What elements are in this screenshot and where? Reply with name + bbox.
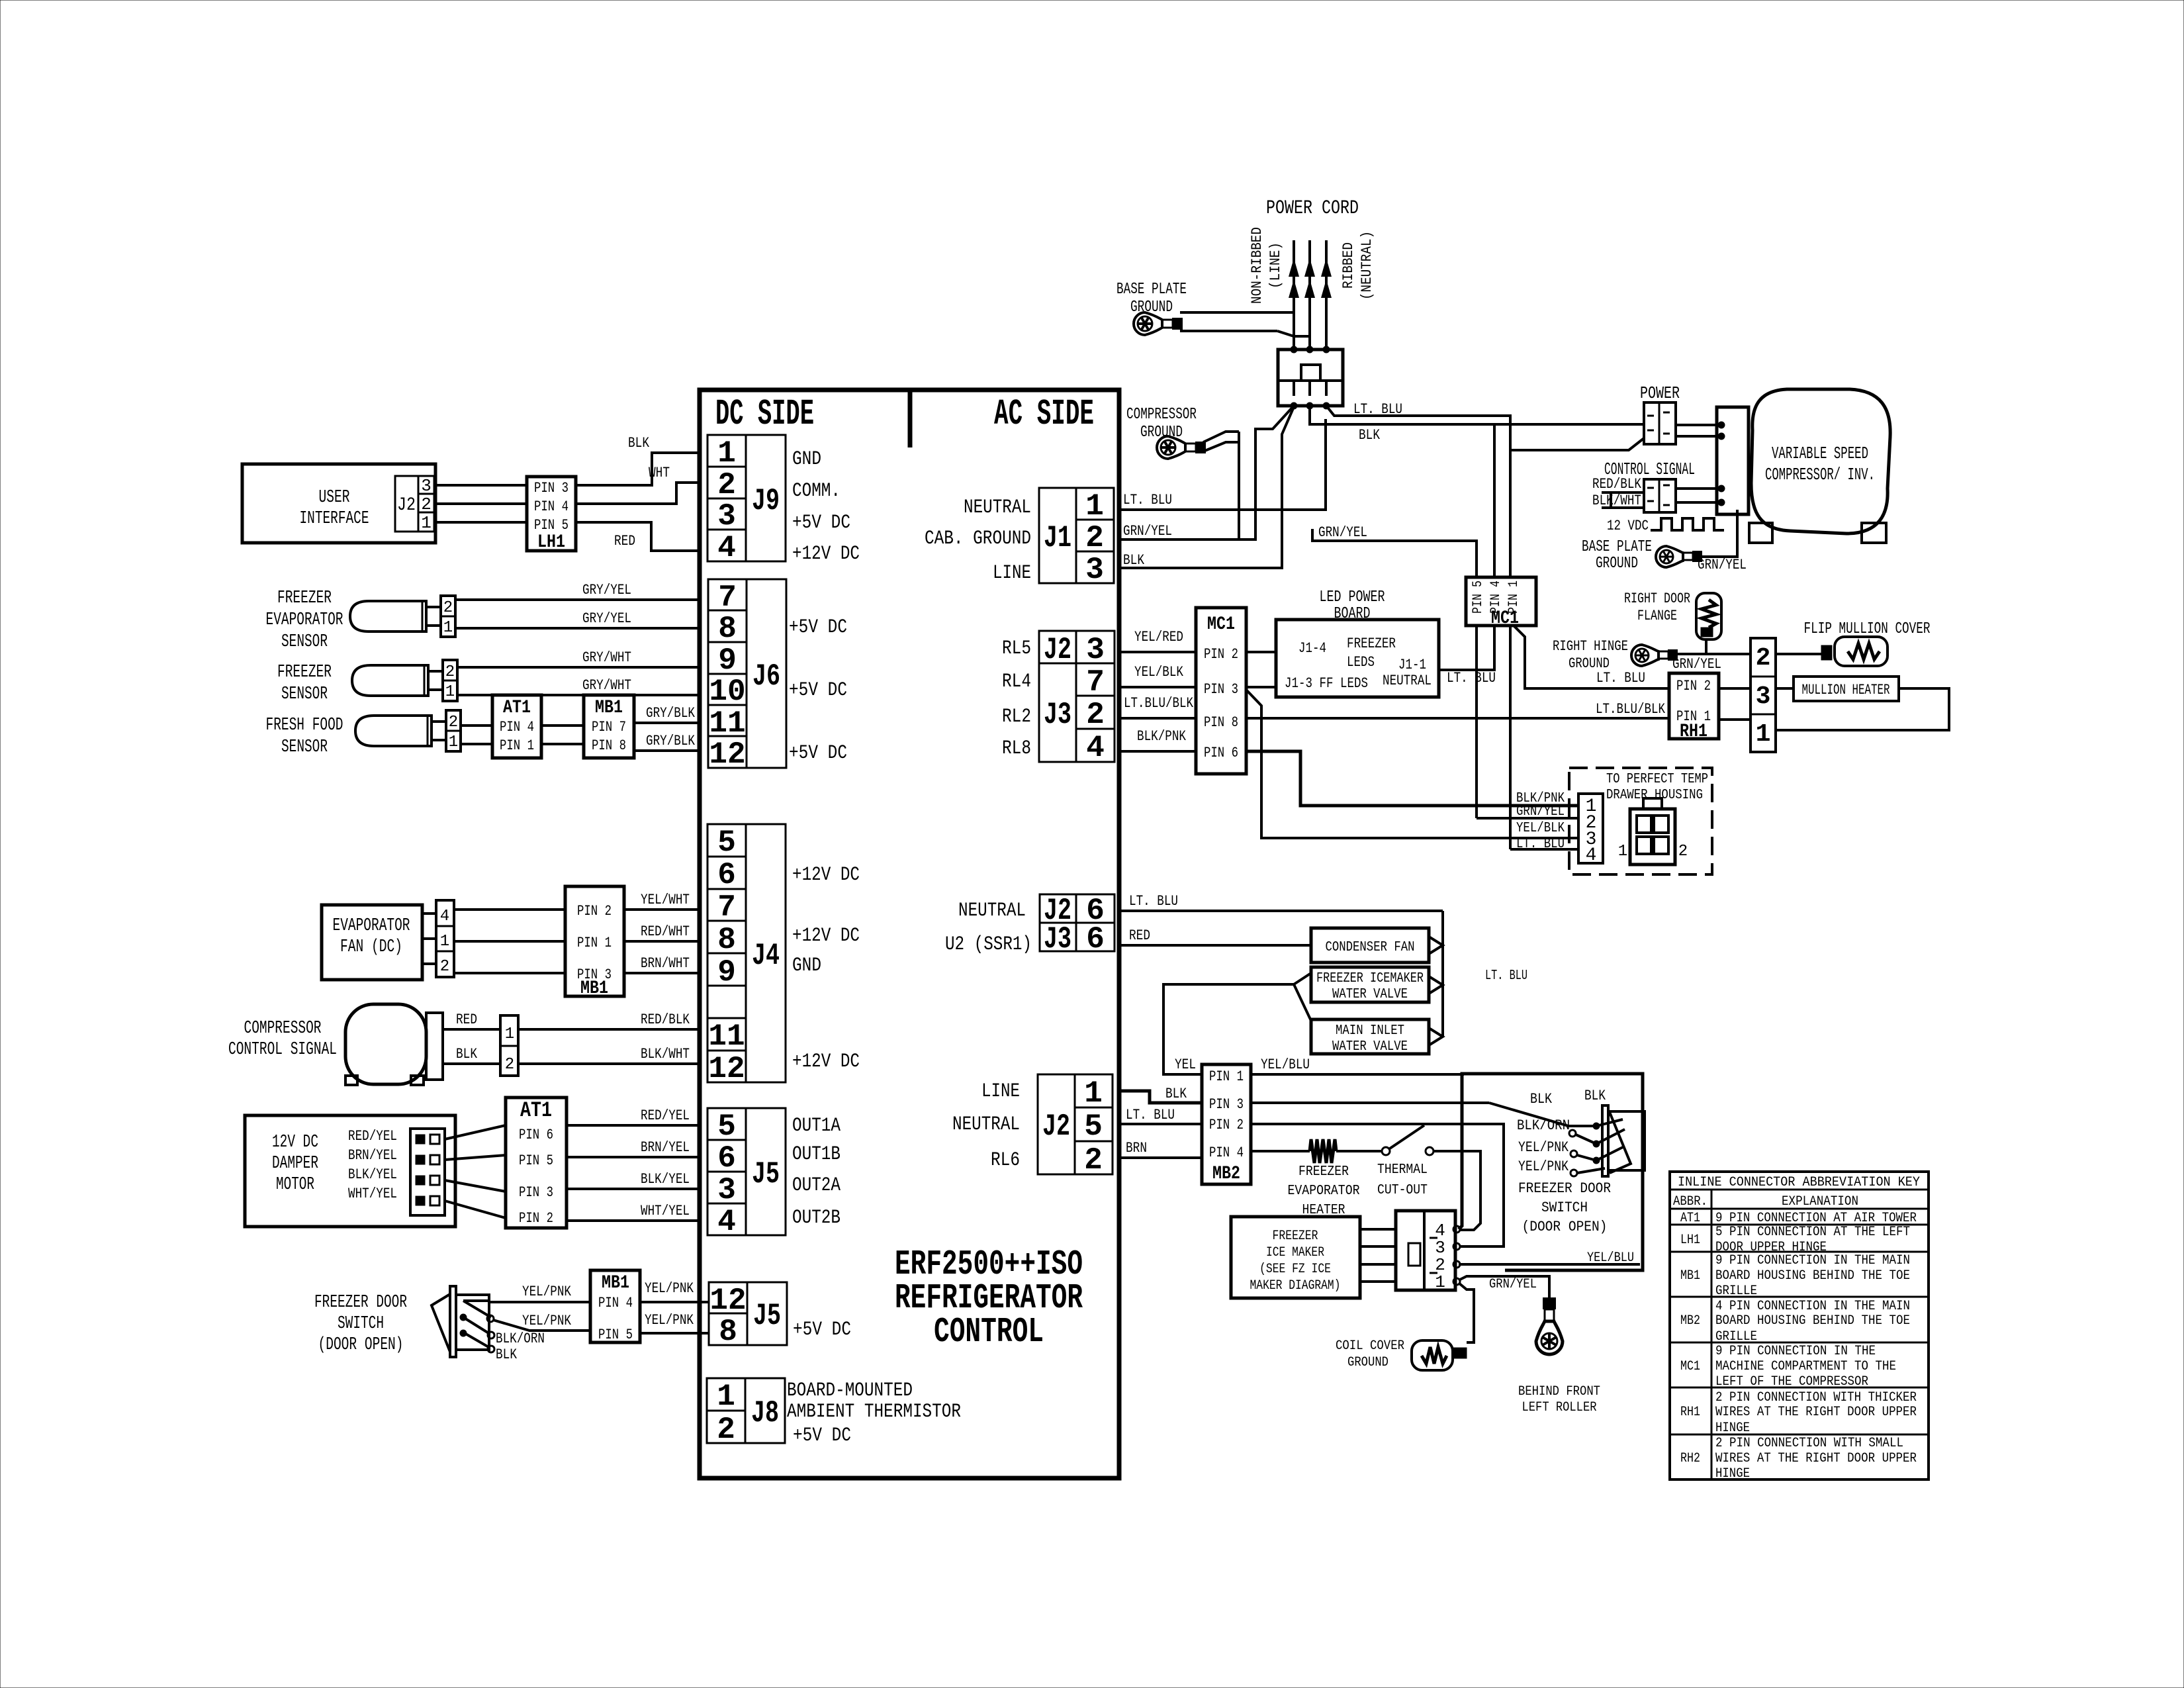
- svg-text:FREEZER ICEMAKER: FREEZER ICEMAKER: [1316, 971, 1424, 986]
- svg-text:MAIN INLET: MAIN INLET: [1336, 1023, 1404, 1039]
- svg-text:MACHINE COMPARTMENT TO THE: MACHINE COMPARTMENT TO THE: [1715, 1359, 1896, 1374]
- svg-text:FLIP MULLION COVER: FLIP MULLION COVER: [1804, 620, 1931, 638]
- svg-text:BOARD-MOUNTED: BOARD-MOUNTED: [787, 1380, 913, 1402]
- svg-text:NEUTRAL: NEUTRAL: [958, 900, 1026, 922]
- svg-text:1: 1: [505, 1025, 514, 1043]
- svg-text:OUT2B: OUT2B: [792, 1207, 841, 1229]
- svg-text:WHT/YEL: WHT/YEL: [348, 1186, 397, 1202]
- svg-text:GRY/WHT: GRY/WHT: [582, 649, 631, 666]
- svg-text:5 PIN CONNECTION AT THE LEFT: 5 PIN CONNECTION AT THE LEFT: [1715, 1225, 1910, 1240]
- svg-text:J1: J1: [1044, 521, 1071, 555]
- svg-text:9: 9: [718, 643, 737, 678]
- svg-text:FREEZER: FREEZER: [1273, 1229, 1318, 1244]
- svg-text:LINE: LINE: [981, 1080, 1020, 1103]
- svg-text:BLK: BLK: [1530, 1091, 1553, 1107]
- svg-text:+5V DC: +5V DC: [792, 512, 850, 534]
- svg-text:LT. BLU: LT. BLU: [1596, 670, 1645, 686]
- svg-text:PIN 4: PIN 4: [598, 1295, 633, 1311]
- svg-text:GRY/BLK: GRY/BLK: [646, 733, 696, 749]
- svg-text:7: 7: [1086, 665, 1105, 700]
- svg-text:J4: J4: [752, 939, 780, 973]
- svg-text:RIBBED: RIBBED: [1340, 242, 1357, 289]
- svg-text:+12V DC: +12V DC: [792, 925, 860, 947]
- svg-text:U2 (SSR1): U2 (SSR1): [945, 933, 1032, 956]
- svg-text:BLK: BLK: [1123, 552, 1145, 569]
- svg-text:NEUTRAL: NEUTRAL: [964, 496, 1031, 519]
- svg-text:1: 1: [1618, 843, 1627, 861]
- svg-text:BRN/WHT: BRN/WHT: [641, 955, 690, 972]
- svg-text:LED POWER: LED POWER: [1320, 588, 1385, 606]
- svg-text:MC1: MC1: [1207, 614, 1235, 635]
- svg-text:PIN 3: PIN 3: [519, 1184, 553, 1201]
- svg-text:MB1: MB1: [602, 1273, 629, 1293]
- svg-text:YEL/PNK: YEL/PNK: [522, 1313, 572, 1329]
- svg-text:BRN: BRN: [1126, 1140, 1147, 1156]
- svg-text:8: 8: [717, 923, 736, 957]
- svg-text:ICE MAKER: ICE MAKER: [1266, 1245, 1324, 1260]
- svg-text:PIN 2: PIN 2: [1204, 646, 1238, 663]
- svg-text:2: 2: [445, 663, 455, 681]
- svg-text:YEL/PNK: YEL/PNK: [645, 1280, 694, 1297]
- svg-text:RED/BLK: RED/BLK: [641, 1011, 690, 1028]
- svg-text:FREEZER DOOR: FREEZER DOOR: [314, 1293, 407, 1313]
- svg-text:5: 5: [1084, 1109, 1103, 1144]
- svg-text:LEFT ROLLER: LEFT ROLLER: [1522, 1400, 1597, 1415]
- svg-text:PIN 8: PIN 8: [592, 737, 626, 754]
- svg-text:PIN 1: PIN 1: [1209, 1068, 1244, 1085]
- svg-text:RED/YEL: RED/YEL: [348, 1128, 397, 1145]
- svg-text:1: 1: [440, 933, 449, 951]
- svg-text:PIN 2: PIN 2: [519, 1210, 553, 1227]
- svg-text:WHT/YEL: WHT/YEL: [641, 1203, 690, 1219]
- svg-text:J3: J3: [1044, 922, 1071, 957]
- svg-text:RED/YEL: RED/YEL: [641, 1107, 690, 1124]
- svg-text:YEL/WHT: YEL/WHT: [641, 892, 690, 908]
- svg-text:RH2: RH2: [1680, 1451, 1700, 1466]
- svg-text:11: 11: [708, 1019, 745, 1054]
- svg-text:BLK/YEL: BLK/YEL: [641, 1171, 690, 1188]
- svg-text:3: 3: [1086, 633, 1105, 667]
- svg-text:BASE PLATE: BASE PLATE: [1116, 281, 1187, 299]
- svg-text:PIN 1: PIN 1: [500, 737, 534, 754]
- svg-text:PIN 6: PIN 6: [519, 1127, 553, 1143]
- svg-text:4: 4: [717, 531, 736, 565]
- svg-text:FREEZER: FREEZER: [277, 588, 332, 608]
- svg-text:J1-4: J1-4: [1298, 640, 1326, 657]
- svg-text:RL8: RL8: [1002, 737, 1031, 760]
- svg-text:GRN/YEL: GRN/YEL: [1489, 1277, 1537, 1292]
- svg-text:2: 2: [1084, 1143, 1103, 1178]
- svg-text:1: 1: [1756, 720, 1771, 749]
- svg-text:YEL/BLK: YEL/BLK: [1134, 664, 1184, 680]
- svg-text:PIN 3: PIN 3: [1209, 1096, 1244, 1113]
- svg-text:3: 3: [717, 499, 736, 534]
- svg-text:PIN 8: PIN 8: [1204, 714, 1238, 731]
- svg-text:BLK: BLK: [456, 1046, 478, 1062]
- svg-text:12 VDC: 12 VDC: [1607, 518, 1649, 534]
- svg-text:2: 2: [505, 1056, 514, 1074]
- svg-text:2: 2: [449, 714, 458, 731]
- svg-text:3: 3: [1756, 682, 1771, 711]
- svg-text:BLK: BLK: [496, 1346, 518, 1363]
- svg-text:GRY/BLK: GRY/BLK: [646, 705, 696, 722]
- svg-text:SWITCH: SWITCH: [1541, 1199, 1588, 1216]
- svg-text:4: 4: [440, 908, 449, 925]
- svg-text:BLK: BLK: [1165, 1086, 1187, 1102]
- svg-text:+5V DC: +5V DC: [789, 679, 847, 702]
- svg-text:J5: J5: [753, 1299, 781, 1333]
- svg-text:PIN 5: PIN 5: [519, 1152, 553, 1169]
- svg-text:FRESH FOOD: FRESH FOOD: [266, 716, 343, 735]
- svg-text:YEL/PNK: YEL/PNK: [645, 1312, 694, 1329]
- svg-text:BRN/YEL: BRN/YEL: [348, 1147, 397, 1164]
- svg-text:J2: J2: [1044, 633, 1071, 667]
- svg-text:PIN 6: PIN 6: [1204, 745, 1238, 761]
- svg-text:NEUTRAL: NEUTRAL: [1383, 673, 1432, 689]
- svg-text:2: 2: [1086, 698, 1105, 732]
- svg-text:(NEUTRAL): (NEUTRAL): [1359, 231, 1375, 300]
- svg-text:LH1: LH1: [1680, 1233, 1700, 1248]
- svg-text:POWER CORD: POWER CORD: [1266, 197, 1359, 220]
- svg-text:SENSOR: SENSOR: [281, 632, 328, 652]
- svg-text:12V DC: 12V DC: [272, 1133, 318, 1152]
- svg-text:LT. BLU: LT. BLU: [1123, 492, 1172, 508]
- svg-text:VARIABLE SPEED: VARIABLE SPEED: [1772, 444, 1868, 463]
- svg-text:2 PIN CONNECTION WITH THICKER: 2 PIN CONNECTION WITH THICKER: [1715, 1390, 1917, 1405]
- svg-text:COMPRESSOR/ INV.: COMPRESSOR/ INV.: [1765, 465, 1875, 485]
- svg-text:9 PIN CONNECTION IN THE MAIN: 9 PIN CONNECTION IN THE MAIN: [1715, 1253, 1910, 1268]
- svg-text:3: 3: [1085, 553, 1104, 587]
- svg-text:12: 12: [709, 737, 745, 772]
- svg-text:3: 3: [717, 1173, 736, 1207]
- svg-text:CONTROL SIGNAL: CONTROL SIGNAL: [228, 1040, 337, 1060]
- svg-text:AMBIENT THERMISTOR: AMBIENT THERMISTOR: [787, 1401, 961, 1423]
- svg-text:CAB. GROUND: CAB. GROUND: [925, 528, 1031, 550]
- svg-text:1: 1: [443, 619, 453, 637]
- svg-text:POWER: POWER: [1640, 383, 1680, 403]
- svg-text:RIGHT DOOR: RIGHT DOOR: [1624, 590, 1690, 607]
- svg-text:BOARD HOUSING BEHIND THE TOE: BOARD HOUSING BEHIND THE TOE: [1715, 1268, 1910, 1284]
- svg-text:BLK/PNK: BLK/PNK: [1137, 728, 1187, 745]
- svg-text:BLK/ORN: BLK/ORN: [496, 1331, 545, 1347]
- svg-text:LT. BLU: LT. BLU: [1485, 968, 1527, 984]
- svg-text:FREEZER: FREEZER: [277, 663, 332, 682]
- svg-text:COMM.: COMM.: [792, 480, 841, 502]
- svg-text:YEL/PNK: YEL/PNK: [1518, 1158, 1569, 1175]
- svg-text:(SEE FZ ICE: (SEE FZ ICE: [1259, 1262, 1331, 1277]
- svg-text:RH1: RH1: [1680, 1405, 1700, 1420]
- svg-text:2: 2: [717, 1413, 735, 1447]
- svg-text:ABBR.: ABBR.: [1673, 1194, 1707, 1209]
- svg-text:J3: J3: [1044, 698, 1071, 732]
- svg-text:+5V DC: +5V DC: [789, 742, 847, 765]
- svg-text:MB2: MB2: [1212, 1164, 1240, 1184]
- svg-text:RL4: RL4: [1002, 671, 1031, 693]
- svg-text:FLANGE: FLANGE: [1637, 608, 1677, 624]
- svg-text:AT1: AT1: [520, 1098, 552, 1123]
- svg-text:SWITCH: SWITCH: [338, 1314, 384, 1334]
- svg-text:12: 12: [708, 1052, 745, 1086]
- svg-text:J9: J9: [752, 484, 780, 518]
- svg-text:GRY/YEL: GRY/YEL: [582, 582, 631, 598]
- svg-text:LT.BLU/BLK: LT.BLU/BLK: [1596, 701, 1666, 718]
- svg-text:RIGHT HINGE: RIGHT HINGE: [1553, 638, 1628, 655]
- svg-text:2: 2: [717, 468, 736, 502]
- svg-text:COMPRESSOR: COMPRESSOR: [244, 1019, 322, 1039]
- svg-text:WATER VALVE: WATER VALVE: [1332, 987, 1408, 1002]
- svg-text:+5V DC: +5V DC: [793, 1319, 851, 1341]
- svg-text:+12V DC: +12V DC: [792, 864, 860, 886]
- svg-text:PIN 3: PIN 3: [1204, 681, 1238, 698]
- svg-text:(DOOR OPEN): (DOOR OPEN): [1522, 1219, 1608, 1235]
- svg-text:WHT: WHT: [649, 465, 670, 481]
- svg-text:PIN 2: PIN 2: [1209, 1117, 1244, 1133]
- svg-text:FREEZER DOOR: FREEZER DOOR: [1518, 1180, 1611, 1197]
- svg-text:PIN 4: PIN 4: [500, 719, 534, 735]
- svg-text:2: 2: [1085, 521, 1104, 555]
- svg-text:(LINE): (LINE): [1267, 242, 1284, 289]
- svg-text:1: 1: [449, 733, 458, 751]
- svg-text:J8: J8: [751, 1396, 779, 1430]
- svg-text:RED: RED: [456, 1011, 477, 1028]
- svg-text:+12V DC: +12V DC: [792, 543, 860, 565]
- svg-text:NON-RIBBED: NON-RIBBED: [1249, 227, 1265, 304]
- svg-text:J2: J2: [397, 495, 416, 516]
- svg-text:2: 2: [1756, 644, 1771, 673]
- svg-text:OUT1A: OUT1A: [792, 1115, 841, 1137]
- svg-text:2: 2: [421, 494, 432, 514]
- svg-text:GROUND: GROUND: [1347, 1355, 1388, 1370]
- svg-text:8: 8: [718, 612, 737, 646]
- svg-text:RL5: RL5: [1002, 637, 1031, 660]
- svg-text:MAKER DIAGRAM): MAKER DIAGRAM): [1250, 1278, 1341, 1293]
- svg-text:BLK/YEL: BLK/YEL: [348, 1166, 397, 1183]
- svg-text:YEL/BLU: YEL/BLU: [1261, 1056, 1310, 1073]
- svg-text:OUT2A: OUT2A: [792, 1174, 841, 1197]
- svg-text:2 PIN CONNECTION WITH SMALL: 2 PIN CONNECTION WITH SMALL: [1715, 1436, 1903, 1451]
- svg-text:CONDENSER FAN: CONDENSER FAN: [1326, 940, 1415, 955]
- svg-text:BOARD HOUSING BEHIND THE TOE: BOARD HOUSING BEHIND THE TOE: [1715, 1313, 1910, 1329]
- svg-text:6: 6: [717, 1141, 736, 1176]
- svg-text:RED: RED: [614, 533, 635, 549]
- svg-text:PIN 4: PIN 4: [1209, 1145, 1244, 1161]
- svg-text:GROUND: GROUND: [1569, 655, 1610, 672]
- svg-text:USER: USER: [319, 488, 350, 508]
- svg-text:AT1: AT1: [503, 698, 531, 718]
- svg-text:WATER VALVE: WATER VALVE: [1332, 1039, 1408, 1055]
- svg-text:PIN 2: PIN 2: [577, 903, 612, 919]
- svg-text:10: 10: [709, 675, 745, 709]
- svg-text:LT. BLU: LT. BLU: [1516, 837, 1565, 852]
- svg-text:DRAWER HOUSING: DRAWER HOUSING: [1606, 788, 1703, 803]
- svg-text:BLK/ORN: BLK/ORN: [1517, 1117, 1570, 1134]
- svg-text:2: 2: [440, 958, 449, 976]
- svg-text:FREEZER: FREEZER: [1298, 1164, 1349, 1180]
- svg-text:RED/BLK: RED/BLK: [1592, 476, 1642, 492]
- svg-text:WIRES AT THE RIGHT DOOR UPPER: WIRES AT THE RIGHT DOOR UPPER: [1715, 1451, 1917, 1466]
- svg-text:YEL/PNK: YEL/PNK: [1518, 1139, 1569, 1156]
- svg-text:EVAPORATOR: EVAPORATOR: [1288, 1184, 1360, 1199]
- svg-text:RED/WHT: RED/WHT: [641, 923, 690, 940]
- svg-text:1: 1: [1085, 489, 1104, 524]
- svg-text:PIN 5: PIN 5: [1471, 581, 1486, 614]
- svg-text:BLK: BLK: [1359, 427, 1381, 444]
- svg-text:COMPRESSOR: COMPRESSOR: [1126, 406, 1197, 424]
- svg-text:EXPLANATION: EXPLANATION: [1782, 1194, 1858, 1209]
- svg-text:BLK: BLK: [628, 435, 650, 451]
- svg-text:+5V DC: +5V DC: [789, 616, 847, 639]
- svg-text:INLINE CONNECTOR ABBREVIATION: INLINE CONNECTOR ABBREVIATION KEY: [1678, 1175, 1920, 1190]
- svg-text:INTERFACE: INTERFACE: [300, 509, 369, 529]
- svg-text:BEHIND FRONT: BEHIND FRONT: [1518, 1384, 1600, 1399]
- svg-text:LEDS: LEDS: [1347, 654, 1375, 671]
- svg-text:RED: RED: [1129, 927, 1150, 944]
- svg-text:BLK: BLK: [1584, 1088, 1606, 1104]
- svg-text:THERMAL: THERMAL: [1377, 1162, 1428, 1178]
- svg-text:GND: GND: [792, 955, 821, 977]
- svg-text:LT. BLU: LT. BLU: [1447, 670, 1496, 686]
- svg-text:4: 4: [717, 1205, 736, 1239]
- svg-text:GND: GND: [792, 448, 821, 471]
- svg-text:RL6: RL6: [991, 1149, 1020, 1172]
- svg-text:PIN 7: PIN 7: [592, 719, 626, 735]
- svg-text:4 PIN CONNECTION IN THE MAIN: 4 PIN CONNECTION IN THE MAIN: [1715, 1299, 1910, 1314]
- svg-text:MB2: MB2: [1680, 1313, 1700, 1329]
- svg-text:8: 8: [719, 1315, 737, 1349]
- svg-text:YEL/BLU: YEL/BLU: [1587, 1250, 1634, 1266]
- svg-text:FREEZER: FREEZER: [1347, 635, 1396, 652]
- svg-text:SENSOR: SENSOR: [281, 737, 328, 757]
- svg-text:OUT1B: OUT1B: [792, 1143, 841, 1166]
- svg-text:(DOOR OPEN): (DOOR OPEN): [318, 1335, 404, 1355]
- svg-text:GRY/YEL: GRY/YEL: [582, 610, 631, 627]
- svg-text:J2: J2: [1042, 1109, 1070, 1144]
- svg-text:WIRES AT THE RIGHT DOOR UPPER: WIRES AT THE RIGHT DOOR UPPER: [1715, 1405, 1917, 1420]
- svg-text:TO PERFECT TEMP: TO PERFECT TEMP: [1606, 772, 1708, 787]
- svg-text:DAMPER: DAMPER: [272, 1154, 318, 1174]
- svg-text:GRN/YEL: GRN/YEL: [1318, 524, 1367, 541]
- svg-text:CUT-OUT: CUT-OUT: [1377, 1183, 1428, 1198]
- svg-text:GRN/YEL: GRN/YEL: [1672, 656, 1721, 673]
- svg-text:1: 1: [717, 1380, 735, 1414]
- svg-text:CONTROL: CONTROL: [934, 1312, 1044, 1352]
- svg-text:2: 2: [443, 599, 453, 617]
- svg-text:LINE: LINE: [993, 562, 1031, 585]
- svg-text:1: 1: [445, 683, 455, 701]
- svg-text:9 PIN CONNECTION IN THE: 9 PIN CONNECTION IN THE: [1715, 1344, 1876, 1359]
- svg-text:MC1: MC1: [1680, 1359, 1700, 1374]
- svg-text:2: 2: [1678, 843, 1688, 861]
- svg-text:1: 1: [717, 436, 736, 471]
- svg-text:GRY/WHT: GRY/WHT: [582, 677, 631, 694]
- svg-text:SENSOR: SENSOR: [281, 684, 328, 704]
- svg-text:LT.BLU/BLK: LT.BLU/BLK: [1124, 695, 1194, 712]
- svg-text:EVAPORATOR: EVAPORATOR: [266, 610, 343, 630]
- svg-text:LT. BLU: LT. BLU: [1126, 1107, 1175, 1123]
- svg-text:YEL: YEL: [1175, 1056, 1196, 1073]
- svg-text:MB1: MB1: [595, 698, 623, 718]
- svg-text:J6: J6: [752, 659, 780, 694]
- svg-text:MULLION HEATER: MULLION HEATER: [1802, 682, 1890, 698]
- svg-text:4: 4: [1086, 731, 1105, 765]
- svg-text:1: 1: [1084, 1076, 1103, 1111]
- svg-text:YEL/RED: YEL/RED: [1134, 629, 1183, 645]
- svg-text:+12V DC: +12V DC: [792, 1051, 860, 1073]
- svg-text:9: 9: [717, 955, 736, 990]
- svg-text:YEL/PNK: YEL/PNK: [522, 1284, 572, 1300]
- svg-text:LT. BLU: LT. BLU: [1353, 401, 1402, 418]
- svg-text:PIN 5: PIN 5: [534, 517, 569, 534]
- svg-text:4: 4: [1586, 845, 1597, 866]
- svg-text:MB1: MB1: [1680, 1268, 1700, 1284]
- svg-text:YEL/BLK: YEL/BLK: [1516, 821, 1565, 836]
- svg-text:3: 3: [421, 476, 432, 496]
- svg-text:J1-1: J1-1: [1398, 657, 1426, 673]
- svg-text:AC SIDE: AC SIDE: [994, 393, 1094, 435]
- svg-text:1: 1: [421, 513, 432, 533]
- svg-text:PIN 4: PIN 4: [534, 498, 569, 515]
- svg-text:PIN 2: PIN 2: [1676, 678, 1711, 694]
- svg-text:BLK/WHT: BLK/WHT: [641, 1046, 690, 1062]
- svg-text:MOTOR: MOTOR: [276, 1175, 314, 1195]
- svg-text:PIN 1: PIN 1: [577, 935, 612, 951]
- svg-text:BRN/YEL: BRN/YEL: [641, 1139, 690, 1156]
- svg-text:HINGE: HINGE: [1715, 1466, 1750, 1481]
- svg-text:GRN/YEL: GRN/YEL: [1516, 804, 1565, 820]
- svg-text:DC SIDE: DC SIDE: [715, 393, 814, 435]
- svg-text:+5V DC: +5V DC: [793, 1425, 851, 1447]
- svg-text:LT. BLU: LT. BLU: [1129, 893, 1178, 910]
- svg-text:FAN (DC): FAN (DC): [340, 937, 402, 957]
- svg-text:GRN/YEL: GRN/YEL: [1123, 523, 1172, 539]
- svg-text:BASE PLATE: BASE PLATE: [1582, 538, 1652, 556]
- svg-text:PIN 5: PIN 5: [598, 1327, 633, 1343]
- svg-text:J5: J5: [752, 1157, 780, 1192]
- svg-text:NEUTRAL: NEUTRAL: [952, 1113, 1020, 1136]
- svg-text:RL2: RL2: [1002, 706, 1031, 728]
- svg-text:5: 5: [717, 1109, 736, 1144]
- svg-text:COIL COVER: COIL COVER: [1336, 1338, 1404, 1354]
- svg-text:GROUND: GROUND: [1596, 555, 1638, 573]
- svg-text:MB1: MB1: [580, 978, 608, 999]
- svg-text:6: 6: [717, 858, 736, 892]
- svg-text:1: 1: [1435, 1272, 1445, 1292]
- svg-text:GRN/YEL: GRN/YEL: [1698, 557, 1747, 573]
- svg-text:5: 5: [717, 825, 736, 860]
- svg-text:7: 7: [717, 890, 736, 925]
- svg-text:J1-3 FF LEDS: J1-3 FF LEDS: [1285, 675, 1368, 692]
- svg-text:PIN 3: PIN 3: [534, 480, 569, 496]
- svg-text:EVAPORATOR: EVAPORATOR: [333, 916, 410, 936]
- svg-text:6: 6: [1086, 922, 1105, 957]
